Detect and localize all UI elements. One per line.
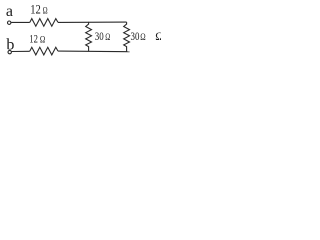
wire b to R2 [12, 50, 30, 52]
svg-text:12: 12 [30, 3, 41, 17]
svg-text:a: a [6, 3, 13, 20]
top rail wire [58, 21, 127, 23]
svg-text:Ω: Ω [105, 33, 110, 43]
svg-text:Ω: Ω [40, 36, 45, 46]
resistor R3 30ohm (left vertical) [86, 22, 92, 52]
svg-text:Ω: Ω [155, 31, 161, 43]
background [0, 0, 161, 71]
resistor R1 12ohm (top horizontal) [30, 19, 58, 27]
svg-text:30: 30 [131, 31, 140, 43]
svg-text:12: 12 [29, 34, 38, 46]
wire a to R1 [11, 21, 30, 23]
terminal b [8, 50, 11, 53]
svg-text:Ω: Ω [43, 7, 48, 17]
resistor R2 12ohm (bottom horizontal) [30, 47, 58, 55]
resistor R4 30ohm (right vertical) [124, 22, 130, 52]
svg-text:Ω: Ω [140, 33, 145, 43]
svg-text:30: 30 [95, 31, 104, 43]
terminal a [8, 21, 11, 24]
bottom rail wire [58, 50, 130, 53]
